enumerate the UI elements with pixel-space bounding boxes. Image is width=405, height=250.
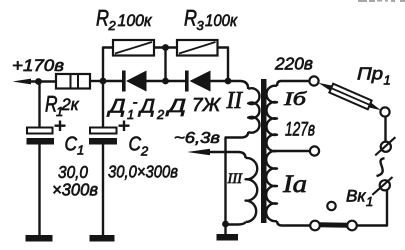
fuse Pr1 leads xyxy=(318,83,333,91)
svg-text:Д: Д xyxy=(138,97,155,118)
watermark artifact top right xyxy=(358,0,405,2)
plug squiggle xyxy=(377,158,385,176)
svg-text:C: C xyxy=(65,134,78,156)
svg-text:Д: Д xyxy=(107,97,126,118)
winding Ia xyxy=(266,151,277,221)
svg-text:2к: 2к xyxy=(61,95,80,114)
capacitor C1 plus xyxy=(55,121,66,132)
node ground transformer dot xyxy=(222,221,229,228)
wire ground stem transformer xyxy=(224,224,226,235)
wire 6.3v line xyxy=(205,151,238,153)
svg-text:Д: Д xyxy=(165,95,186,116)
diode D2 xyxy=(185,71,189,92)
svg-text:~6,3в: ~6,3в xyxy=(174,130,220,147)
svg-text:C: C xyxy=(129,134,142,156)
wire D1 to D2 xyxy=(146,80,185,82)
wire winding III bottom to ground node xyxy=(226,222,246,225)
svg-text:R: R xyxy=(96,6,109,31)
wire R3 right vertical xyxy=(218,48,229,82)
svg-text:3: 3 xyxy=(197,18,205,33)
node A junction dot xyxy=(100,78,107,85)
wire node B to winding II top xyxy=(228,81,248,89)
svg-text:2: 2 xyxy=(156,107,165,122)
svg-text:II: II xyxy=(226,88,243,114)
winding III xyxy=(246,158,258,222)
node diode mid dot xyxy=(162,78,169,85)
capacitor C2 plus xyxy=(119,121,130,132)
fuse Pr1 body xyxy=(329,84,371,110)
resistor R2 body xyxy=(113,40,154,56)
wire middle vertical from R2R3 node to diode node xyxy=(164,48,166,82)
winding II xyxy=(248,88,259,132)
svg-text:127в: 127в xyxy=(285,120,315,141)
resistor R1 2W marks xyxy=(70,74,72,89)
capacitor C2 plates xyxy=(90,128,117,134)
node B dot xyxy=(225,78,232,85)
capacitor C1 plates xyxy=(27,128,53,134)
plug pin lower xyxy=(380,180,390,190)
plug pin upper xyxy=(381,142,391,152)
wire R1 to junction A xyxy=(90,80,103,82)
resistor R1 body xyxy=(56,74,90,89)
wire C2 branch vertical xyxy=(102,81,104,128)
svg-text:100к: 100к xyxy=(205,11,238,30)
wire 220v top lead xyxy=(277,81,310,86)
svg-text:100к: 100к xyxy=(118,11,153,30)
arrow 6.3v head xyxy=(187,149,210,155)
switch Bk1 contact right xyxy=(347,221,357,231)
svg-text:1: 1 xyxy=(77,143,84,158)
svg-text:Iб: Iб xyxy=(283,89,308,110)
switch lever bar xyxy=(319,222,348,227)
winding Ib xyxy=(266,86,277,152)
svg-text:Пр: Пр xyxy=(357,64,383,84)
wire junction A to diode D1 xyxy=(103,80,122,82)
switch Bk1 contact left xyxy=(310,221,320,231)
wire C1 branch vertical xyxy=(38,82,40,128)
svg-text:2: 2 xyxy=(108,18,117,33)
terminal 127в circle xyxy=(310,146,319,155)
node R2R3 dot xyxy=(162,44,169,51)
wire D2 to node B xyxy=(211,80,229,82)
diode D1 xyxy=(122,71,126,92)
wire main bus +170v arrow line xyxy=(28,80,56,82)
ground C2 xyxy=(90,235,115,242)
svg-text:Iа: Iа xyxy=(282,171,307,198)
svg-text:-: - xyxy=(133,94,138,111)
resistor R3 body xyxy=(177,40,218,56)
svg-text:R: R xyxy=(184,6,197,31)
svg-text:1: 1 xyxy=(384,73,391,88)
node +170v junction dot xyxy=(35,78,42,85)
wire C1 lower stem xyxy=(38,144,40,236)
switch knob circle xyxy=(327,202,335,210)
wire R2 left vertical xyxy=(103,48,113,82)
svg-text:×300в: ×300в xyxy=(52,180,98,200)
transformer core xyxy=(261,79,267,223)
svg-text:30,0×300в: 30,0×300в xyxy=(108,162,178,182)
wire 127v tap xyxy=(277,150,310,152)
wire winding II bottom return xyxy=(226,132,249,224)
ground transformer xyxy=(217,234,239,241)
wire fuse circle down to plug xyxy=(384,117,386,142)
arrow +170v head xyxy=(13,79,32,85)
wire R2-R3 link xyxy=(154,46,177,48)
svg-text:+170в: +170в xyxy=(12,56,64,75)
wire C2 lower stem xyxy=(102,144,104,236)
svg-text:1: 1 xyxy=(366,194,373,209)
svg-text:III: III xyxy=(227,171,243,187)
wire into winding III xyxy=(238,152,246,158)
svg-text:220в: 220в xyxy=(274,54,313,74)
ground C1 xyxy=(26,235,53,242)
wire switch to right corner xyxy=(357,190,387,226)
terminal 220в circle xyxy=(309,76,318,85)
svg-text:Вк: Вк xyxy=(346,187,366,206)
svg-text:2: 2 xyxy=(140,144,149,159)
wire winding Ia bottom lead to switch xyxy=(277,221,310,226)
fuse right terminal circle xyxy=(380,107,389,116)
svg-text:7Ж: 7Ж xyxy=(192,94,221,115)
